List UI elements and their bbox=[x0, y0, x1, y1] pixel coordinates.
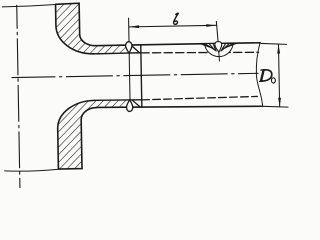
weld seam 1 bottom teardrop bbox=[126, 100, 133, 112]
arrowhead D0 bottom bbox=[278, 98, 281, 107]
pipe break line (wavy) bbox=[256, 43, 263, 107]
weld seam 2 fan rays right bbox=[221, 43, 237, 51]
dimension line l bbox=[129, 25, 216, 27]
pipe top outer line bbox=[95, 43, 260, 46]
arrowhead l left bbox=[129, 25, 139, 28]
dimension D0 extension line top bbox=[261, 43, 286, 45]
arrowhead D0 top bbox=[277, 44, 280, 53]
pipe stub hatch stroke bottom bbox=[132, 100, 140, 107]
weld seam 2 penetration bowl bbox=[205, 44, 234, 57]
label D0 letter D bottom serif bbox=[260, 80, 264, 82]
arrowhead l right bbox=[206, 24, 216, 27]
label D0 letter D top serif bbox=[261, 69, 266, 71]
dimension D0 extension line bottom bbox=[263, 106, 288, 108]
dimension line D0 bbox=[278, 44, 279, 107]
dimension l extension line right bbox=[216, 21, 218, 42]
pipe bottom bore hidden line (dashed) bbox=[142, 96, 258, 99]
weld seam 1 top teardrop bbox=[126, 42, 133, 54]
pipe end joint line bbox=[141, 45, 142, 107]
label D0 letter D stem bbox=[261, 70, 264, 81]
flange lower section (hatched) bbox=[57, 100, 130, 169]
pipe top bore line (sectioned solid) bbox=[94, 53, 141, 54]
weld seam 2 fan rays left bbox=[202, 44, 216, 52]
flange plate top face thin line bbox=[2, 5, 55, 7]
horizontal centerline (dash-dot) bbox=[12, 73, 258, 77]
pipe bottom bore line (sectioned solid) bbox=[94, 99, 141, 100]
vertical flange axis (dash-dot) bbox=[17, 5, 20, 188]
flange upper section (hatched) bbox=[56, 2, 129, 54]
pipe bottom outer line bbox=[97, 105, 262, 110]
label l (script ell) bbox=[173, 13, 178, 24]
label D0 subscript zero bbox=[271, 78, 275, 83]
pipe stub section bottom bbox=[129, 100, 141, 108]
flange plate bottom face thin line bbox=[5, 169, 59, 171]
pipe top bore hidden line (dashed) bbox=[141, 51, 259, 55]
pipe stub section top (between weld and pipe end line) bbox=[128, 45, 140, 53]
dimension l extension line left / weld axis bbox=[129, 18, 131, 106]
weld seam 2 bead droplet bbox=[215, 42, 222, 53]
pipe stub hatch stroke top bbox=[131, 45, 139, 52]
weld seam 2 center root line bbox=[218, 52, 221, 61]
label D0 letter D bowl bbox=[261, 70, 272, 81]
